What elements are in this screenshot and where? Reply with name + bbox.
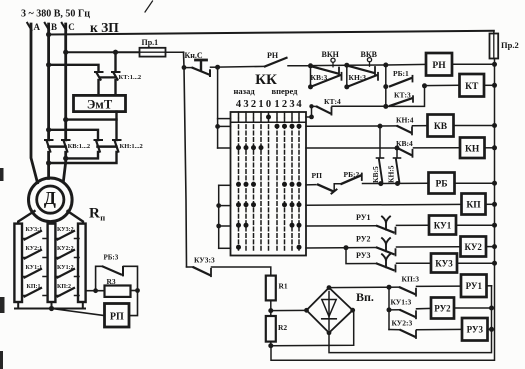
resistor column 3 [78, 224, 86, 302]
svg-text:к ЗП: к ЗП [90, 20, 119, 35]
wire KT branch vertical [385, 65, 387, 106]
svg-text:РБ:1: РБ:1 [393, 69, 409, 78]
wire VKN to VKV [311, 64, 347, 66]
svg-text:КТ:1...2: КТ:1...2 [119, 74, 142, 81]
wire riser rows 1-3 [217, 67, 219, 148]
node KN:3 bottom [344, 84, 349, 89]
contact RU1 [377, 226, 394, 233]
wire KU3 to rail [457, 262, 495, 264]
wire to KT coil [425, 84, 460, 86]
contact KU3:2 [58, 231, 75, 240]
wire node to rectifier AC right [271, 310, 354, 345]
svg-text:КВ:5: КВ:5 [371, 166, 380, 183]
svg-text:ЭмТ: ЭмТ [87, 98, 113, 112]
wire phase B lower to motor [47, 152, 50, 178]
wire row4 to RP contact [306, 184, 316, 186]
node KP:3 feed [387, 285, 392, 290]
node KN:5 bottom [395, 181, 400, 186]
svg-text:КТ:4: КТ:4 [324, 97, 341, 106]
node KT feed [422, 83, 427, 88]
resistor column 2 [48, 224, 56, 302]
wire row3 to KV:4 [306, 147, 398, 149]
scan smudge left edge 2 [0, 297, 5, 313]
svg-text:п: п [100, 213, 105, 223]
resistor tap ticks [22, 239, 79, 296]
linkage KT pair [100, 76, 115, 78]
svg-text:КП:2: КП:2 [57, 284, 71, 290]
wire phase A [31, 24, 38, 183]
svg-text:B: B [51, 22, 57, 32]
wire DC return bus [329, 286, 492, 353]
contact KT:3 [390, 98, 412, 105]
contact KV:1 [45, 139, 53, 141]
svg-text:назад: назад [234, 86, 256, 96]
stray pen stroke top [145, 1, 153, 12]
contact KT:1 [95, 71, 103, 73]
svg-text:КТ: КТ [465, 82, 479, 92]
node KT branch bottom [383, 104, 388, 109]
wire bank col3 to R3 [87, 290, 96, 292]
wire VKV bypass vertical [346, 65, 348, 87]
node KU1:3 feed [387, 307, 392, 312]
resistor R2 [266, 316, 276, 342]
wire row2 left stub [218, 125, 231, 127]
node B brake tap [46, 62, 51, 67]
relay KU1 box [429, 216, 456, 235]
contact RN [218, 65, 265, 68]
contact KP:1 [25, 288, 42, 297]
wire VKN bypass vertical [310, 66, 312, 87]
motor D outer circle [29, 178, 73, 222]
node R3 left [93, 288, 98, 293]
svg-text:3 ~ 380 В, 50 Гц: 3 ~ 380 В, 50 Гц [21, 9, 90, 20]
contact KN:1 [95, 139, 103, 141]
resistor column 1 [14, 224, 22, 302]
svg-text:РБ:3: РБ:3 [104, 254, 119, 262]
node R3 right [135, 288, 140, 293]
node KV:3 bottom [308, 84, 313, 89]
node B top bus [46, 32, 51, 37]
node KT branch mid [383, 84, 388, 89]
node bracket row6 [216, 224, 221, 229]
wire phase C upper [64, 24, 67, 140]
wire KT bracket [386, 86, 425, 107]
wire KT:2 drop [114, 52, 116, 72]
node VKV left [344, 63, 349, 68]
svg-text:КУ2:2: КУ2:2 [57, 246, 74, 252]
svg-text:КУ2:3: КУ2:3 [392, 319, 413, 328]
wire KV to rail [454, 125, 495, 127]
node B KN branch [46, 127, 51, 132]
contact KN:4 [398, 126, 411, 132]
node KV:5 tap [378, 124, 383, 129]
linkage KV pair [49, 145, 66, 148]
relay RN box [426, 53, 452, 76]
controller KK box [231, 112, 307, 256]
wire phase C lower to motor [63, 152, 65, 182]
wire KN to rail [485, 147, 495, 149]
node KV:5 bottom [378, 181, 383, 186]
svg-text:КВ: КВ [434, 122, 448, 132]
svg-text:КП:1: КП:1 [27, 284, 41, 290]
node RN line right [383, 63, 388, 68]
svg-text:КВ:4: КВ:4 [396, 139, 413, 148]
wire phase B upper [47, 24, 50, 140]
contact KN:5 [396, 148, 398, 158]
contact KV:3 [312, 75, 341, 86]
contact KP:2 [58, 288, 75, 297]
relay RB box [429, 173, 455, 194]
wire KP to rail [486, 203, 495, 205]
wire DC feed vertical [388, 287, 390, 329]
svg-text:КУ2: КУ2 [464, 242, 482, 252]
contact KU2:2 [58, 250, 75, 259]
svg-text:КУ1:2: КУ1:2 [57, 265, 74, 271]
relay KT box [460, 74, 485, 97]
svg-text:РУ1: РУ1 [466, 281, 483, 291]
svg-text:РУ2: РУ2 [434, 303, 451, 313]
relay RU2 box [431, 298, 454, 319]
rectifier diode symbol [328, 292, 330, 330]
wire B to brake contact KT:1 [49, 65, 99, 72]
svg-text:КУ3:2: КУ3:2 [57, 227, 74, 233]
svg-text:вперед: вперед [272, 86, 299, 96]
wire bracket rows 4-7 [218, 185, 220, 248]
svg-text:2: 2 [251, 99, 256, 110]
svg-text:КУ1: КУ1 [434, 220, 452, 230]
node KT:2 tap [113, 50, 118, 55]
wire rectifier plus to contacts [329, 286, 389, 288]
node C at EmT return [63, 117, 68, 122]
node R2 bottom [268, 343, 273, 348]
fuse Pr.1 [140, 48, 166, 57]
svg-text:A: A [34, 22, 41, 32]
node C fuse tap [63, 50, 68, 55]
node VKN left [308, 63, 313, 68]
svg-text:РБ: РБ [435, 180, 447, 190]
svg-text:КУ3:1: КУ3:1 [26, 227, 43, 233]
wire RU1 to DC bus [487, 285, 492, 287]
relay KU3 box [431, 254, 457, 273]
wire row7 to RU2 contact [306, 247, 377, 250]
contact KT:4 [306, 116, 312, 118]
wire motor tap right [68, 211, 84, 225]
node Kn.S output [215, 65, 220, 70]
wire RU3 branch [346, 248, 377, 264]
svg-text:4: 4 [236, 99, 242, 110]
contact KN:3 [348, 75, 377, 86]
wire KT to rail [484, 84, 495, 86]
wire motor tap middle [50, 223, 52, 225]
contact KU2:1 [25, 250, 42, 259]
node bank bottom [49, 306, 54, 311]
svg-text:КН:5: КН:5 [387, 165, 396, 183]
fuse Pr.2 [493, 31, 495, 59]
wire EmT bottom to C [66, 112, 117, 120]
wire row3 left stub [218, 147, 231, 149]
phase arrow C [62, 23, 66, 30]
wire row2 to KN:4 [306, 125, 398, 127]
wire bank to RP diagonal [52, 309, 105, 316]
rectifier vertex nodes [327, 285, 332, 290]
svg-text:R3: R3 [107, 277, 116, 286]
svg-text:Пр.1: Пр.1 [142, 38, 159, 47]
node C KN:1 join [63, 156, 68, 161]
brake EmT box [74, 95, 126, 111]
svg-text:РУ3: РУ3 [467, 325, 484, 335]
rectifier Vp diamond [307, 288, 353, 333]
contact RB:1 [390, 78, 411, 86]
contact RB:2 [342, 176, 361, 184]
node B KN:2 join [46, 160, 51, 165]
svg-text:КТ:3: КТ:3 [394, 91, 411, 100]
svg-text:РБ:2: РБ:2 [344, 170, 360, 179]
controller position columns [239, 112, 300, 118]
node bracket row5 [216, 203, 221, 208]
svg-text:R: R [89, 206, 100, 222]
wire B to KN:1 branch [49, 130, 98, 140]
svg-text:3: 3 [289, 99, 294, 110]
wire KU1 to rail [456, 224, 495, 226]
svg-text:ВКН: ВКН [322, 50, 340, 59]
contact KN:2 [113, 139, 121, 141]
node DC bus RU3 [489, 327, 494, 332]
node RU3 branch [344, 245, 349, 250]
svg-text:КП: КП [466, 201, 481, 211]
scan smudge left edge 1 [0, 168, 4, 181]
position digits [236, 99, 303, 110]
svg-text:R2: R2 [278, 323, 287, 332]
wire R2 bottom [270, 342, 272, 346]
controller closure dots [236, 115, 302, 250]
contact KV:4 [398, 148, 411, 155]
svg-text:1: 1 [274, 99, 279, 110]
node row2 riser [215, 124, 220, 129]
svg-text:КУ1:3: КУ1:3 [391, 298, 412, 307]
contact RU3 [377, 264, 394, 271]
motor D inner circle [37, 186, 64, 213]
phase arrow B [45, 23, 49, 30]
svg-text:РН: РН [267, 51, 279, 60]
svg-text:4: 4 [296, 99, 302, 110]
svg-text:3: 3 [243, 99, 248, 110]
svg-text:КУ2:1: КУ2:1 [26, 246, 43, 252]
svg-text:РП: РП [312, 171, 323, 180]
wire VKV to RN coil [347, 63, 426, 66]
relay RP box [105, 304, 130, 328]
svg-text:Вп.: Вп. [356, 290, 374, 304]
node KN:5 tap [395, 146, 400, 151]
relay RU1 box [461, 275, 487, 298]
wire row1 left stub [218, 118, 231, 120]
wire row6 to RU1 contact [306, 225, 377, 227]
wire RU2 to DC bus [454, 307, 492, 309]
relay KN box [460, 138, 485, 159]
svg-text:0: 0 [266, 99, 271, 110]
wire motor tap left [18, 211, 34, 225]
svg-text:КН:4: КН:4 [396, 116, 414, 125]
wire RP to R3 right [129, 291, 138, 316]
contact RB:3 [96, 266, 103, 290]
wire top bus to ZP and Pr.2 [49, 31, 494, 35]
svg-text:КУ3: КУ3 [435, 258, 453, 268]
svg-text:КН:3: КН:3 [349, 73, 367, 82]
svg-text:РУ3: РУ3 [356, 251, 371, 260]
svg-text:Пр.2: Пр.2 [501, 40, 519, 50]
wire RN to rail [452, 63, 495, 65]
svg-text:R1: R1 [279, 282, 288, 291]
contact RU2 [377, 248, 394, 255]
contact KU3:1 [25, 231, 42, 240]
wire right rail [271, 59, 495, 361]
svg-text:1: 1 [258, 99, 263, 110]
relay RU3 box [462, 318, 488, 341]
phase arrow A [27, 23, 31, 30]
wire row5 to KP coil [306, 203, 462, 206]
wire RU3 to DC bus [488, 328, 492, 330]
wire RB to rail [455, 182, 495, 184]
relay KP box [462, 194, 486, 215]
contact KV:5 [379, 126, 381, 158]
svg-text:2: 2 [282, 99, 287, 110]
svg-text:КП:3: КП:3 [402, 275, 420, 284]
contact RP [318, 185, 333, 192]
wire C to fuse Pr.1 [66, 51, 140, 53]
svg-text:Д: Д [44, 188, 56, 208]
rail junction nodes [492, 62, 497, 266]
svg-text:КУ1:1: КУ1:1 [26, 265, 43, 271]
wire bank bottoms [17, 302, 19, 309]
svg-text:РУ2: РУ2 [356, 235, 371, 244]
svg-text:РН: РН [432, 61, 446, 71]
svg-text:КВ:3: КВ:3 [311, 73, 328, 82]
wire R1 to R2 [270, 300, 272, 316]
contact KU1:2 [58, 269, 75, 278]
contact KU1:1 [25, 269, 42, 278]
node DC bus RU2 [489, 306, 494, 311]
wire left control bus [184, 52, 187, 267]
wire node to rectifier AC left [271, 309, 307, 311]
svg-text:КН:1...2: КН:1...2 [120, 143, 143, 150]
node left bus top [182, 65, 187, 70]
svg-text:РП: РП [110, 312, 124, 323]
scan smudge left edge 3 [0, 351, 3, 369]
svg-text:КВ:1...2: КВ:1...2 [68, 143, 91, 150]
node R1-R2 [268, 308, 273, 313]
svg-text:C: C [68, 22, 75, 32]
controller row 1 line [231, 121, 306, 123]
relay KU2 box [461, 237, 487, 257]
linkage KN pair [98, 145, 117, 148]
resistor R1 [266, 276, 276, 301]
resistor R3 [105, 286, 131, 297]
relay KV box [428, 115, 454, 137]
svg-text:КН: КН [465, 144, 480, 154]
svg-text:КУ3:3: КУ3:3 [194, 256, 215, 265]
wire KU2 to rail [486, 246, 495, 248]
svg-text:РУ1: РУ1 [356, 213, 371, 222]
contact KV:2 [62, 139, 70, 141]
wire KN:2 drop [115, 120, 117, 140]
contact KT:2 [112, 71, 120, 73]
wire fuse Pr.1 to control bus [166, 51, 184, 53]
